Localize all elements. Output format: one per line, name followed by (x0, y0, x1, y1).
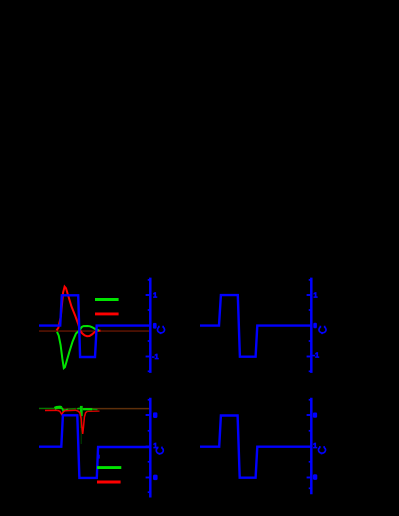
svg-text:1: 1 (313, 441, 317, 450)
ylabel G TR (319, 326, 326, 334)
ylabel G TL (157, 326, 164, 334)
red dip BL (57, 410, 65, 414)
svg-text:-1: -1 (152, 352, 159, 361)
green spike mast fade BL (80, 416, 82, 428)
reference line right part BL (80, 408, 150, 410)
green spike mast BL (80, 406, 83, 416)
tick labels BL (153, 412, 157, 418)
legend red sample BL (97, 481, 121, 484)
green bump and dip BL (55, 407, 62, 408)
zero reference line (dark red) TL (39, 330, 150, 332)
legend green sample TL (95, 298, 119, 301)
red big spike BL (76, 410, 87, 434)
svg-text:1: 1 (313, 290, 317, 299)
red flat segment BL (45, 409, 57, 411)
svg-text:-1: -1 (313, 350, 320, 359)
y-axis BR (307, 398, 312, 495)
tick labels BR (313, 413, 317, 418)
blue square-wave curve TL (39, 295, 150, 357)
svg-text:1: 1 (153, 291, 157, 300)
legend green sample BL (97, 466, 121, 469)
blue square-wave curve TR (200, 295, 311, 357)
blue square-wave curve BR (200, 416, 311, 478)
red flat segment 3 BL (87, 410, 99, 412)
red flat segment 2 BL (65, 409, 76, 411)
y-axis TR (307, 278, 312, 373)
green flat dark segment BL (39, 407, 54, 409)
blue notch on rise edge BL (98, 455, 100, 459)
ylabel G BR (318, 446, 325, 454)
green arm right BL (83, 408, 93, 410)
y-axis BL (146, 398, 151, 498)
y-axis TL (146, 278, 151, 373)
legend red sample TL (95, 312, 119, 315)
reference line left part BL (39, 408, 80, 410)
green flat dark segment 2 BL (68, 408, 76, 411)
green arm left BL (77, 407, 80, 410)
green curve TL (57, 326, 99, 368)
blue square-wave curve BL (39, 415, 150, 478)
red curve TL (57, 287, 101, 337)
ylabel G BL (156, 447, 163, 455)
